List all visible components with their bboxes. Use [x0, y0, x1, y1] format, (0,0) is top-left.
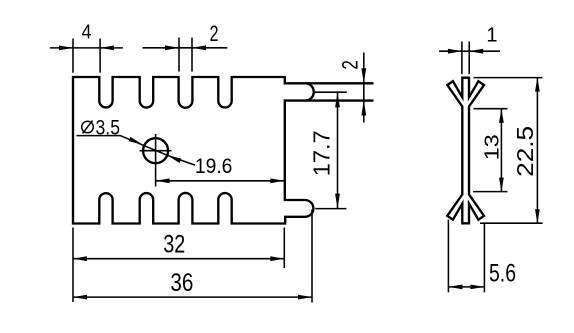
svg-text:1: 1 [486, 25, 497, 47]
dim 2 (slot) right arrowhead [192, 45, 206, 50]
dim 36 left arrowhead [73, 295, 87, 300]
dim 22.5 dimension line [536, 78, 538, 224]
dim 1 left extension line [461, 42, 463, 75]
mounting hole circle [143, 138, 168, 163]
dim 32 right extension line [283, 228, 285, 269]
svg-text:19.6: 19.6 [195, 155, 233, 178]
dim 5.6 right extension line [483, 223, 485, 292]
dim 36 right arrowhead [298, 295, 312, 300]
dim 2 (slot) left arrowhead [165, 45, 179, 50]
dim 4 right extension line [99, 39, 101, 73]
rounded root of top solder pin [305, 83, 314, 100]
dim 1 right extension line [468, 42, 470, 75]
19.6 leader arrowhead at hole lower-right [168, 155, 182, 163]
dim 17.7 dimension line [337, 92, 339, 208]
dim 36 right extension line [311, 210, 313, 303]
dim 13 dimension line [500, 109, 502, 192]
heatsink extrusion profile outline (side view, right): wall with V flares [447, 78, 484, 224]
svg-text:13: 13 [482, 134, 504, 160]
dim 4 left arrowhead [59, 46, 73, 51]
dim 2 (pin) lower arrowhead [361, 101, 366, 116]
svg-text:3.5: 3.5 [96, 117, 121, 140]
dim 2 (slot width) left extension line [178, 38, 180, 72]
dim 22.5 top reference line [474, 77, 543, 79]
svg-text:4: 4 [82, 22, 92, 44]
dim 4 left extension line [72, 39, 74, 73]
dim 32 dimension line [73, 258, 284, 260]
dim 1 dimension line [439, 50, 500, 52]
diameter symbol slash [83, 121, 93, 134]
heatsink body outline with top/bottom fin slots and solder pin (top view, left) [73, 77, 374, 224]
dim 2 (pin thickness) dimension line [363, 53, 365, 123]
dims 32/36 shared left extension line [72, 228, 74, 303]
dim 32 left arrowhead [73, 256, 87, 261]
svg-text:36: 36 [170, 269, 193, 297]
svg-text:2: 2 [210, 21, 219, 46]
dim 17.7 bottom reference line [315, 208, 346, 210]
dim 22.5 top arrowhead [535, 78, 540, 92]
dim 5.6 left arrowhead [448, 285, 462, 290]
dim 19.6 right arrowhead [270, 178, 284, 183]
diameter leader arrowhead at hole upper-left [129, 137, 143, 145]
dim 2 (slot width) dimension line [143, 47, 228, 49]
svg-text:22.5: 22.5 [512, 126, 538, 177]
dim 1 right arrowhead [469, 49, 483, 54]
svg-text:32: 32 [163, 231, 185, 259]
dim 5.6 left extension line [447, 220, 449, 293]
dim 4 right arrowhead [100, 46, 114, 51]
hole horizontal centerline [140, 150, 172, 152]
dim 13 bottom reference line [473, 191, 507, 193]
dim 17.7 top arrowhead [335, 92, 340, 107]
dim 32 right arrowhead [270, 256, 284, 261]
dim 5.6 dimension line [448, 286, 484, 288]
dim 2 (pin) upper arrowhead [361, 68, 366, 83]
dim 22.5 bottom reference line [480, 222, 543, 224]
dim 19.6 dimension line [156, 180, 285, 182]
dim 13 top arrowhead [499, 109, 504, 123]
dim 19.6 left arrowhead [156, 178, 170, 183]
hole vertical centerline (also 19.6 extension) [155, 134, 157, 187]
dim 36 dimension line [73, 296, 312, 298]
hole diameter leader line (3.5) through hole to 19.6 label [76, 136, 194, 166]
dim 4 dimension line [50, 47, 123, 49]
dim 13 top reference line [474, 108, 508, 110]
svg-text:17.7: 17.7 [309, 130, 335, 176]
dim 17.7 top reference line (pin centerline) [315, 91, 347, 93]
dim 17.7 bottom arrowhead [335, 194, 340, 209]
dim 1 left arrowhead [448, 49, 462, 54]
dim 22.5 bottom arrowhead [535, 209, 540, 223]
diameter symbol circle of label 3.5 [82, 121, 94, 133]
svg-text:5.6: 5.6 [489, 260, 516, 288]
svg-text:2: 2 [338, 60, 363, 70]
dim 5.6 right arrowhead [470, 285, 484, 290]
dim 2 (slot width) right extension line [191, 38, 193, 72]
dim 13 bottom arrowhead [499, 178, 504, 192]
